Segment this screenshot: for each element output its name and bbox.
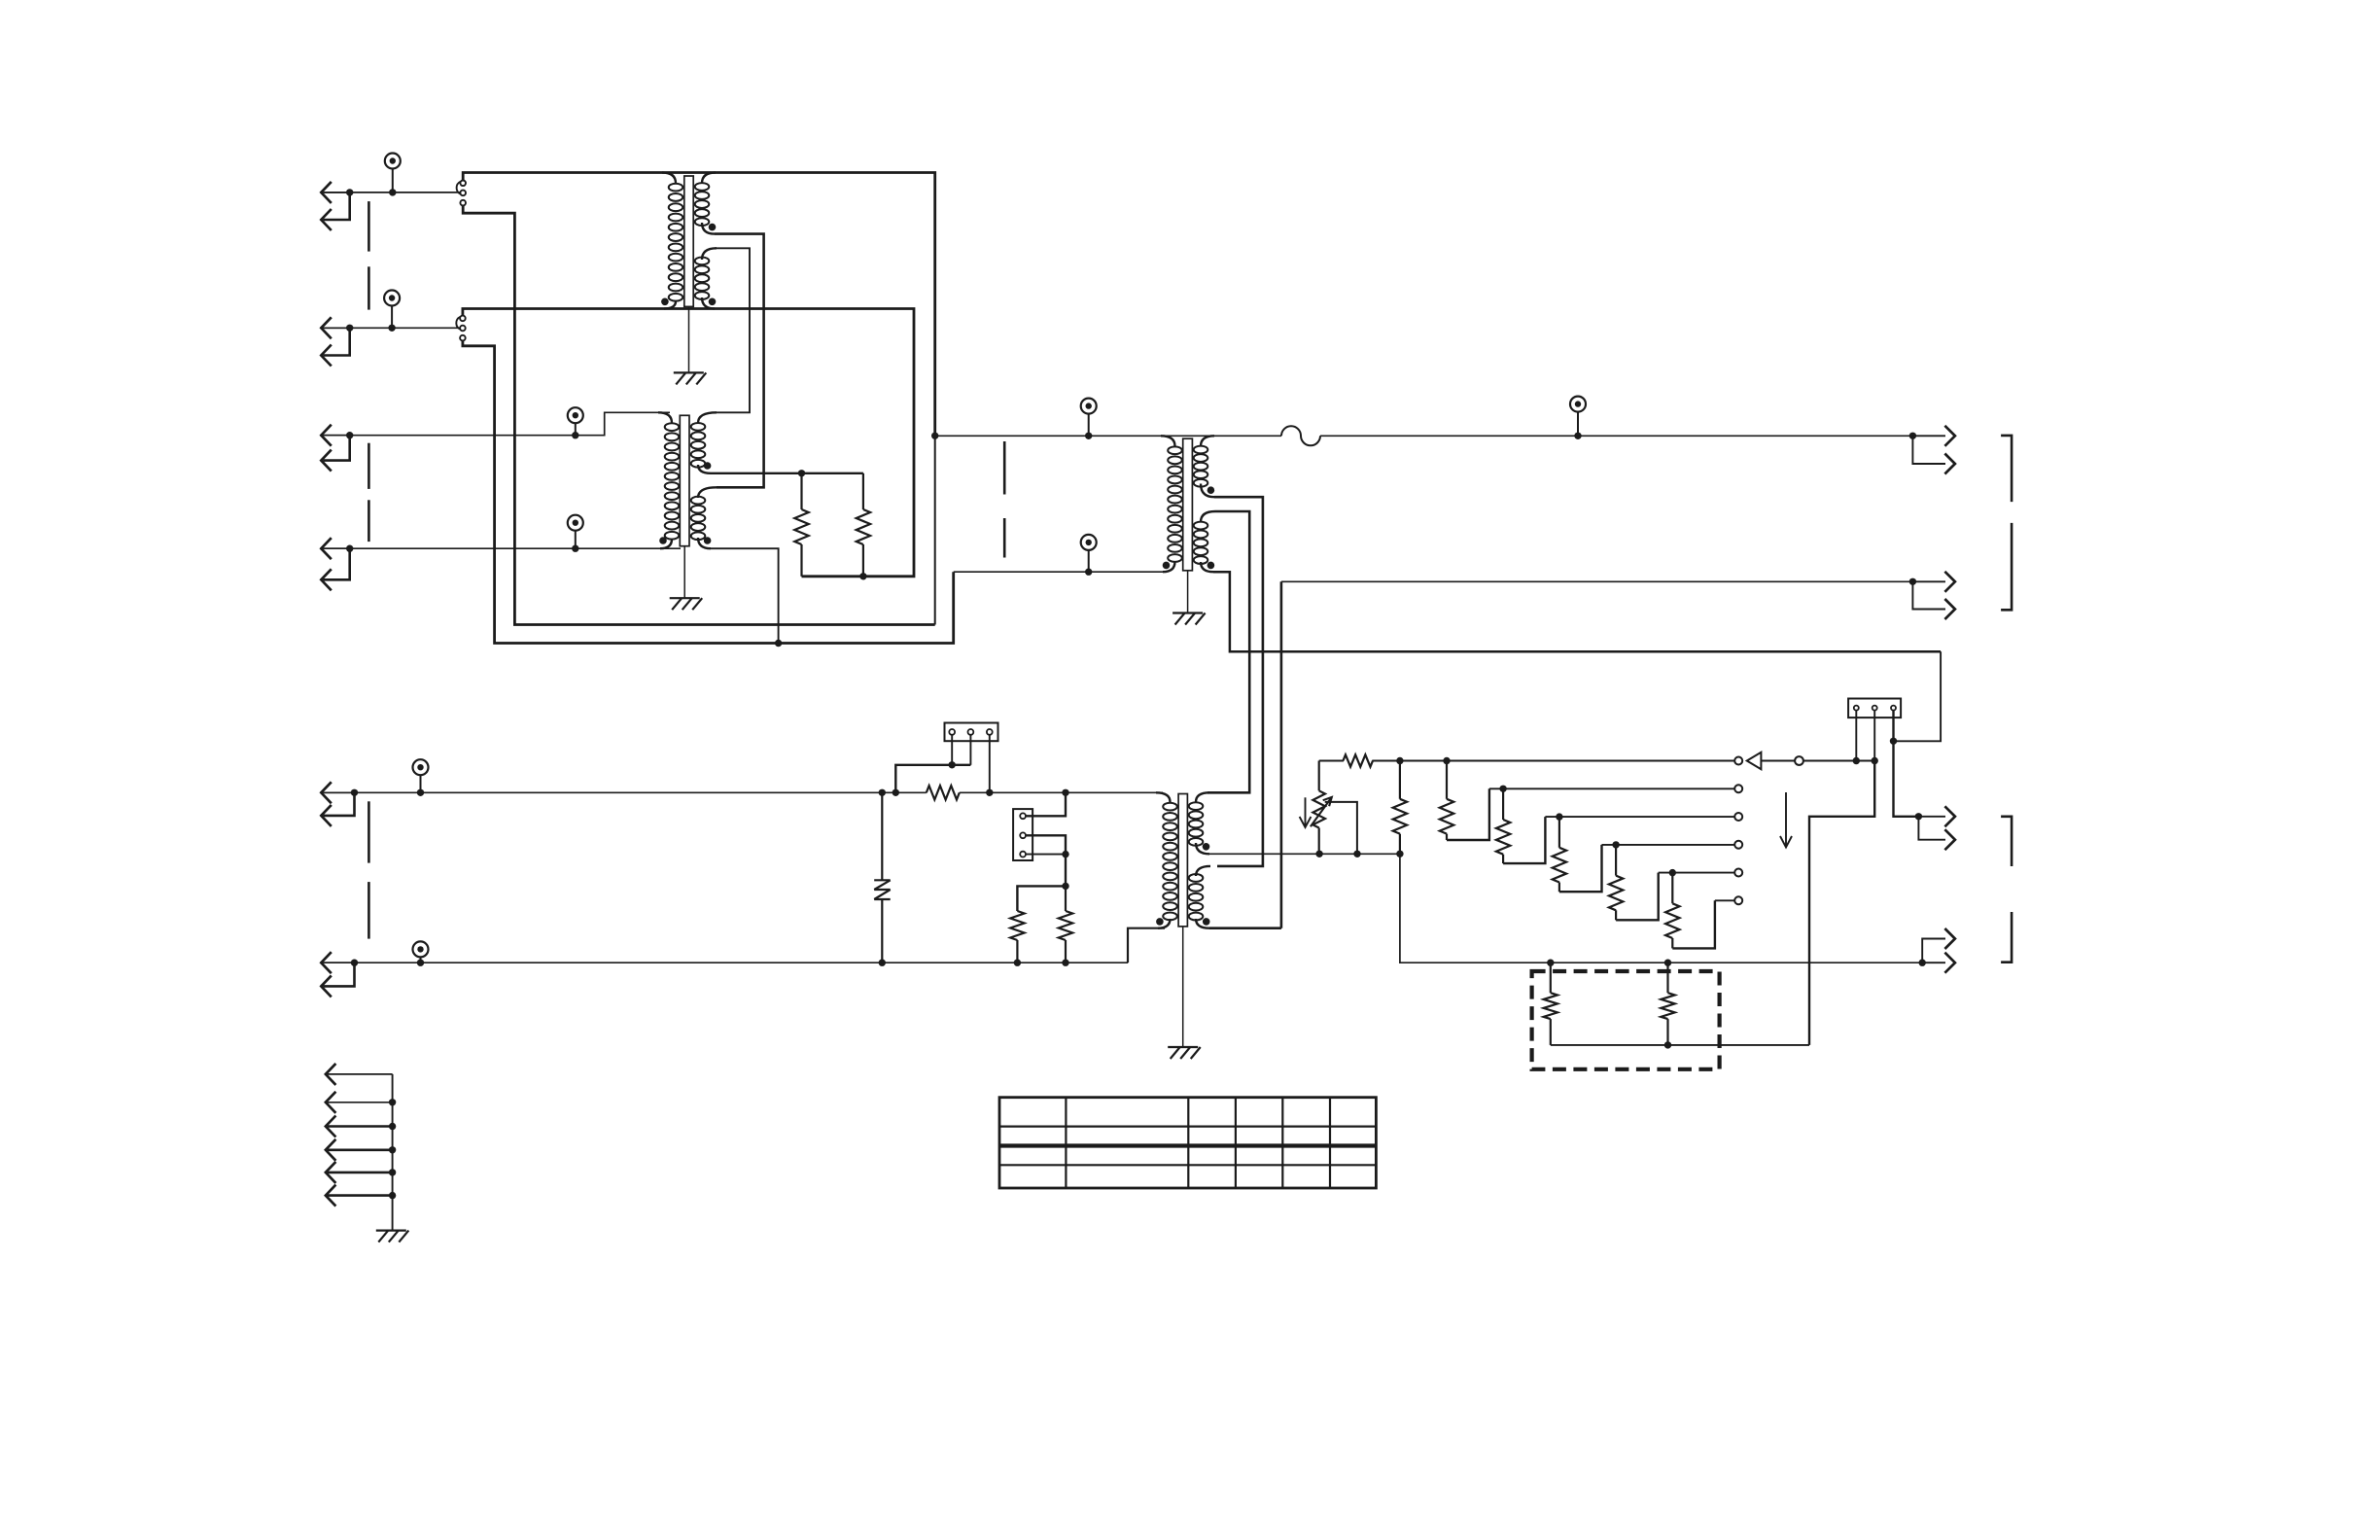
connector J1 pin pair (input row 4) arrows [321,538,353,590]
output pair 2 arrows [1909,572,1955,619]
transformer T1 secondary winding 2 (bottom) [702,248,717,260]
connector J2 pin (row 5) arrows [321,782,358,826]
wire T2 secondary2 bottom to connector J5 pin3 net [1213,572,1941,651]
wire J5 pin3 to output pair 3 [1894,711,1919,817]
cable screen dashes (middle) [1003,441,1006,495]
transformer T4 secondary winding 1 (top) [1196,792,1209,802]
transformer T4 phase dot (secondary 1) [1203,843,1210,851]
resistor R6 (series, horizontal) [1343,754,1373,766]
transformer T3 core [680,415,689,545]
connector J2 pin (row 6) arrows [321,952,358,997]
transformer T3 phase dot (secondary 2) [704,537,712,544]
wire output pair 2 net down to T4 secondary2 bottom [1280,581,1283,927]
transformer T1 phase dot (primary) [661,298,669,306]
wire T3 secondary1 bottom to resistor pair R1 R2 [711,472,863,474]
connector J5 (3-pin) [1848,699,1901,718]
transformer T3 center-tap to ground [683,546,685,599]
potentiometer RV2 [1311,761,1357,855]
junction [1853,757,1860,764]
junction [1547,960,1554,966]
wire T4 secondary2 bottom [1209,927,1281,929]
wire T4 secondary1 bottom mid-bus [1209,853,1400,855]
wire attenuator top bus [1319,760,1344,762]
connector J1 pin pair (input row 1) arrows [321,182,353,230]
wire T2 primary bottom [954,571,1163,573]
connector J4 (3-pin, vertical) [1013,809,1032,860]
junction [1062,851,1068,857]
transformer T4 secondary winding 2 (bottom) [1196,866,1210,876]
wire T2 secondary1 bottom down to T4 secondary2 top [1214,497,1263,866]
resistor R4 [1059,886,1072,962]
junction [1062,789,1068,796]
junction [1890,738,1897,745]
junction [1669,869,1676,876]
resistor R8 [1440,761,1489,841]
connector J3 (3-pin, horizontal) [945,723,998,742]
resistor R10 [1553,817,1602,892]
junction [1353,851,1360,857]
wire output pair 2 net [1281,580,1913,582]
wire J4 pin1 to row5 [1026,792,1066,816]
junction [1396,757,1403,764]
transformer T1 phase dot (secondary 1) [709,224,717,231]
rotary switch SW1 wiper [1747,752,1874,769]
revision table [999,1098,1376,1188]
ground symbol GND1 [674,372,707,384]
output pair 1 arrows [1909,426,1955,474]
transformer T2 primary winding [1161,436,1175,446]
junction [986,789,993,796]
resistor R12 [1665,873,1715,949]
wire J3 pin1/pin2 to row5 [895,735,970,793]
transformer T2 phase dot (secondary 1) [1207,486,1215,494]
dashed enclosure (external load) [1532,971,1720,1069]
junction [1443,757,1450,764]
wire attenuator bus 6 [1715,899,1734,901]
wire row2 to switch S2 [324,327,460,329]
transformer T3 phase dot (primary) [659,537,667,544]
cable screen dashes (left, rows 3-4) [367,443,370,489]
varistor RV1 [874,880,891,899]
wire mid-bus down to lower bus [1400,854,1922,962]
junction [1014,960,1021,966]
wire J4 pin3 node [1026,854,1066,856]
wire attenuator bus 4 [1602,844,1735,846]
ground symbol GND2 [670,598,703,610]
transformer T4 center-tap to ground [1182,927,1184,1047]
transformer T2 center-tap to ground [1187,571,1189,613]
test point TP8 [413,759,429,796]
wire varistor to row6 [881,899,883,962]
wire J4 pin2 to pin3 node [1026,835,1066,854]
wire T1 secondary1 to T3 secondary2 (vertical feed) [715,234,764,488]
wire switch S1 bottom contact down to bus A [463,206,935,625]
junction [775,640,782,647]
wire switch S2 top contact to T1 primary bottom bus [463,309,914,577]
resistor R14 [1661,962,1674,1045]
resistor R9 [1496,788,1546,863]
test point TP5 [1081,399,1097,439]
varistor RV1 branch [881,792,883,879]
test point TP4 [568,515,583,552]
transformer T2 phase dot (primary) [1163,562,1171,570]
junction [1664,960,1671,966]
test point TP9 [413,941,429,966]
transformer T1 phase dot (secondary 2) [709,298,717,306]
transformer T4 core [1178,794,1187,927]
junction [859,573,866,579]
transformer T2 phase dot (secondary 2) [1207,562,1215,570]
connector J6 ground pins (arrow stack) [326,1064,396,1231]
resistor R2 [862,473,864,509]
junction [1062,960,1068,966]
junction [879,960,886,966]
transformer T1 center-tap to ground [688,306,690,372]
cable screen dashes (left, rows 1-2) [367,201,370,252]
junction (main node) [931,433,938,439]
wire J5 pin1 to wiper line [1855,711,1857,761]
movement arrow (down) [1780,792,1792,848]
rotary switch SW1 contacts [1734,757,1742,905]
wire main bus to T2 primary top [935,435,1281,437]
bracket (output group 1) [2001,436,2012,502]
wire switch S1 top contact to T1 primary top bus [463,173,935,437]
transformer T1 core [684,176,693,306]
test point TP3 [568,407,583,438]
transformer T1 primary winding [662,173,676,184]
junction [1062,883,1068,890]
wire row6 bus to T4 primary bottom [324,962,1128,963]
junction [798,470,805,476]
switch S2 [456,316,465,341]
wire switch S2 bottom contact down to bus B [463,341,954,644]
cable screen dashes (left, rows 5-6) [367,801,370,862]
wire J4 node to resistors RA RB [1065,855,1067,887]
transformer T3 primary winding [658,412,672,423]
junction [1315,851,1322,857]
junction [1396,851,1403,857]
transformer T2 secondary winding 2 (bottom) [1201,511,1215,522]
output pair 4 arrows [1919,928,1955,973]
transformer T3 secondary winding 1 (top) [698,412,717,423]
resistor R5 (series in row5) [927,786,960,799]
wire attenuator bus 2 [1489,787,1734,789]
transformer T4 primary winding [1156,792,1171,802]
wire row3 to transformer T3 primary top [324,412,670,435]
transformer T3 phase dot (secondary 1) [704,462,712,470]
wire J5 pin2 down to dashed box bottom [1809,711,1878,1045]
wire attenuator bus 5 [1659,872,1734,874]
resistor R11 [1609,845,1659,920]
wire T3 secondary2 bottom down to bus B [711,548,779,643]
resistor R13 [1544,962,1557,1045]
junction [1499,786,1506,792]
output pair 3 arrows [1915,806,1955,850]
ground symbol GND3 [1172,613,1206,625]
wire attenuator bus 3 [1545,816,1734,818]
transformer T4 phase dot (primary) [1156,918,1164,926]
fuse/jumper hop F1 [1281,426,1320,445]
switch S1 [457,181,466,206]
wire row4 to transformer T3 primary bottom [324,547,681,549]
resistor R7 [1399,761,1401,799]
wire T2 secondary top bus to output pair 1 [1320,435,1912,437]
ground symbol GND4 [1168,1047,1201,1059]
wire row1 to switch S1 [324,192,460,193]
test point TP7 [1081,535,1097,576]
transformer T2 secondary winding 1 (top) [1201,436,1214,446]
junction [879,789,886,796]
transformer T1 secondary winding 1 (top) [702,173,716,184]
junction [1664,1041,1671,1048]
test point TP6 [1570,397,1586,439]
transformer T3 secondary winding 2 (bottom) [698,487,717,498]
wire dashed box bottom [1551,1044,1809,1046]
connector J1 pin pair (input row 3) arrows [321,425,353,472]
test point TP2 [384,291,400,332]
junction [1556,813,1562,820]
ground symbol GND5 [376,1231,409,1242]
adjustment arrow (down) [1300,797,1312,827]
wire T2 secondary2 top down to T4 secondary1 top [1207,511,1249,792]
junction [1612,841,1619,848]
resistor R3 [1010,886,1066,962]
wire T1 secondary2 to T3 secondary1 (vertical feed) [715,248,750,412]
bracket (output group 2) [2001,817,2012,866]
connector J1 pin pair (input row 2) arrows [321,317,353,366]
resistor R1 [800,473,802,509]
junction [892,789,899,796]
transformer T2 core [1183,438,1193,571]
test point TP1 [385,154,401,196]
wire J3 pin3 to row5 [989,735,991,793]
transformer T4 phase dot (secondary 2) [1203,918,1210,926]
wire row5 bus [324,791,927,793]
